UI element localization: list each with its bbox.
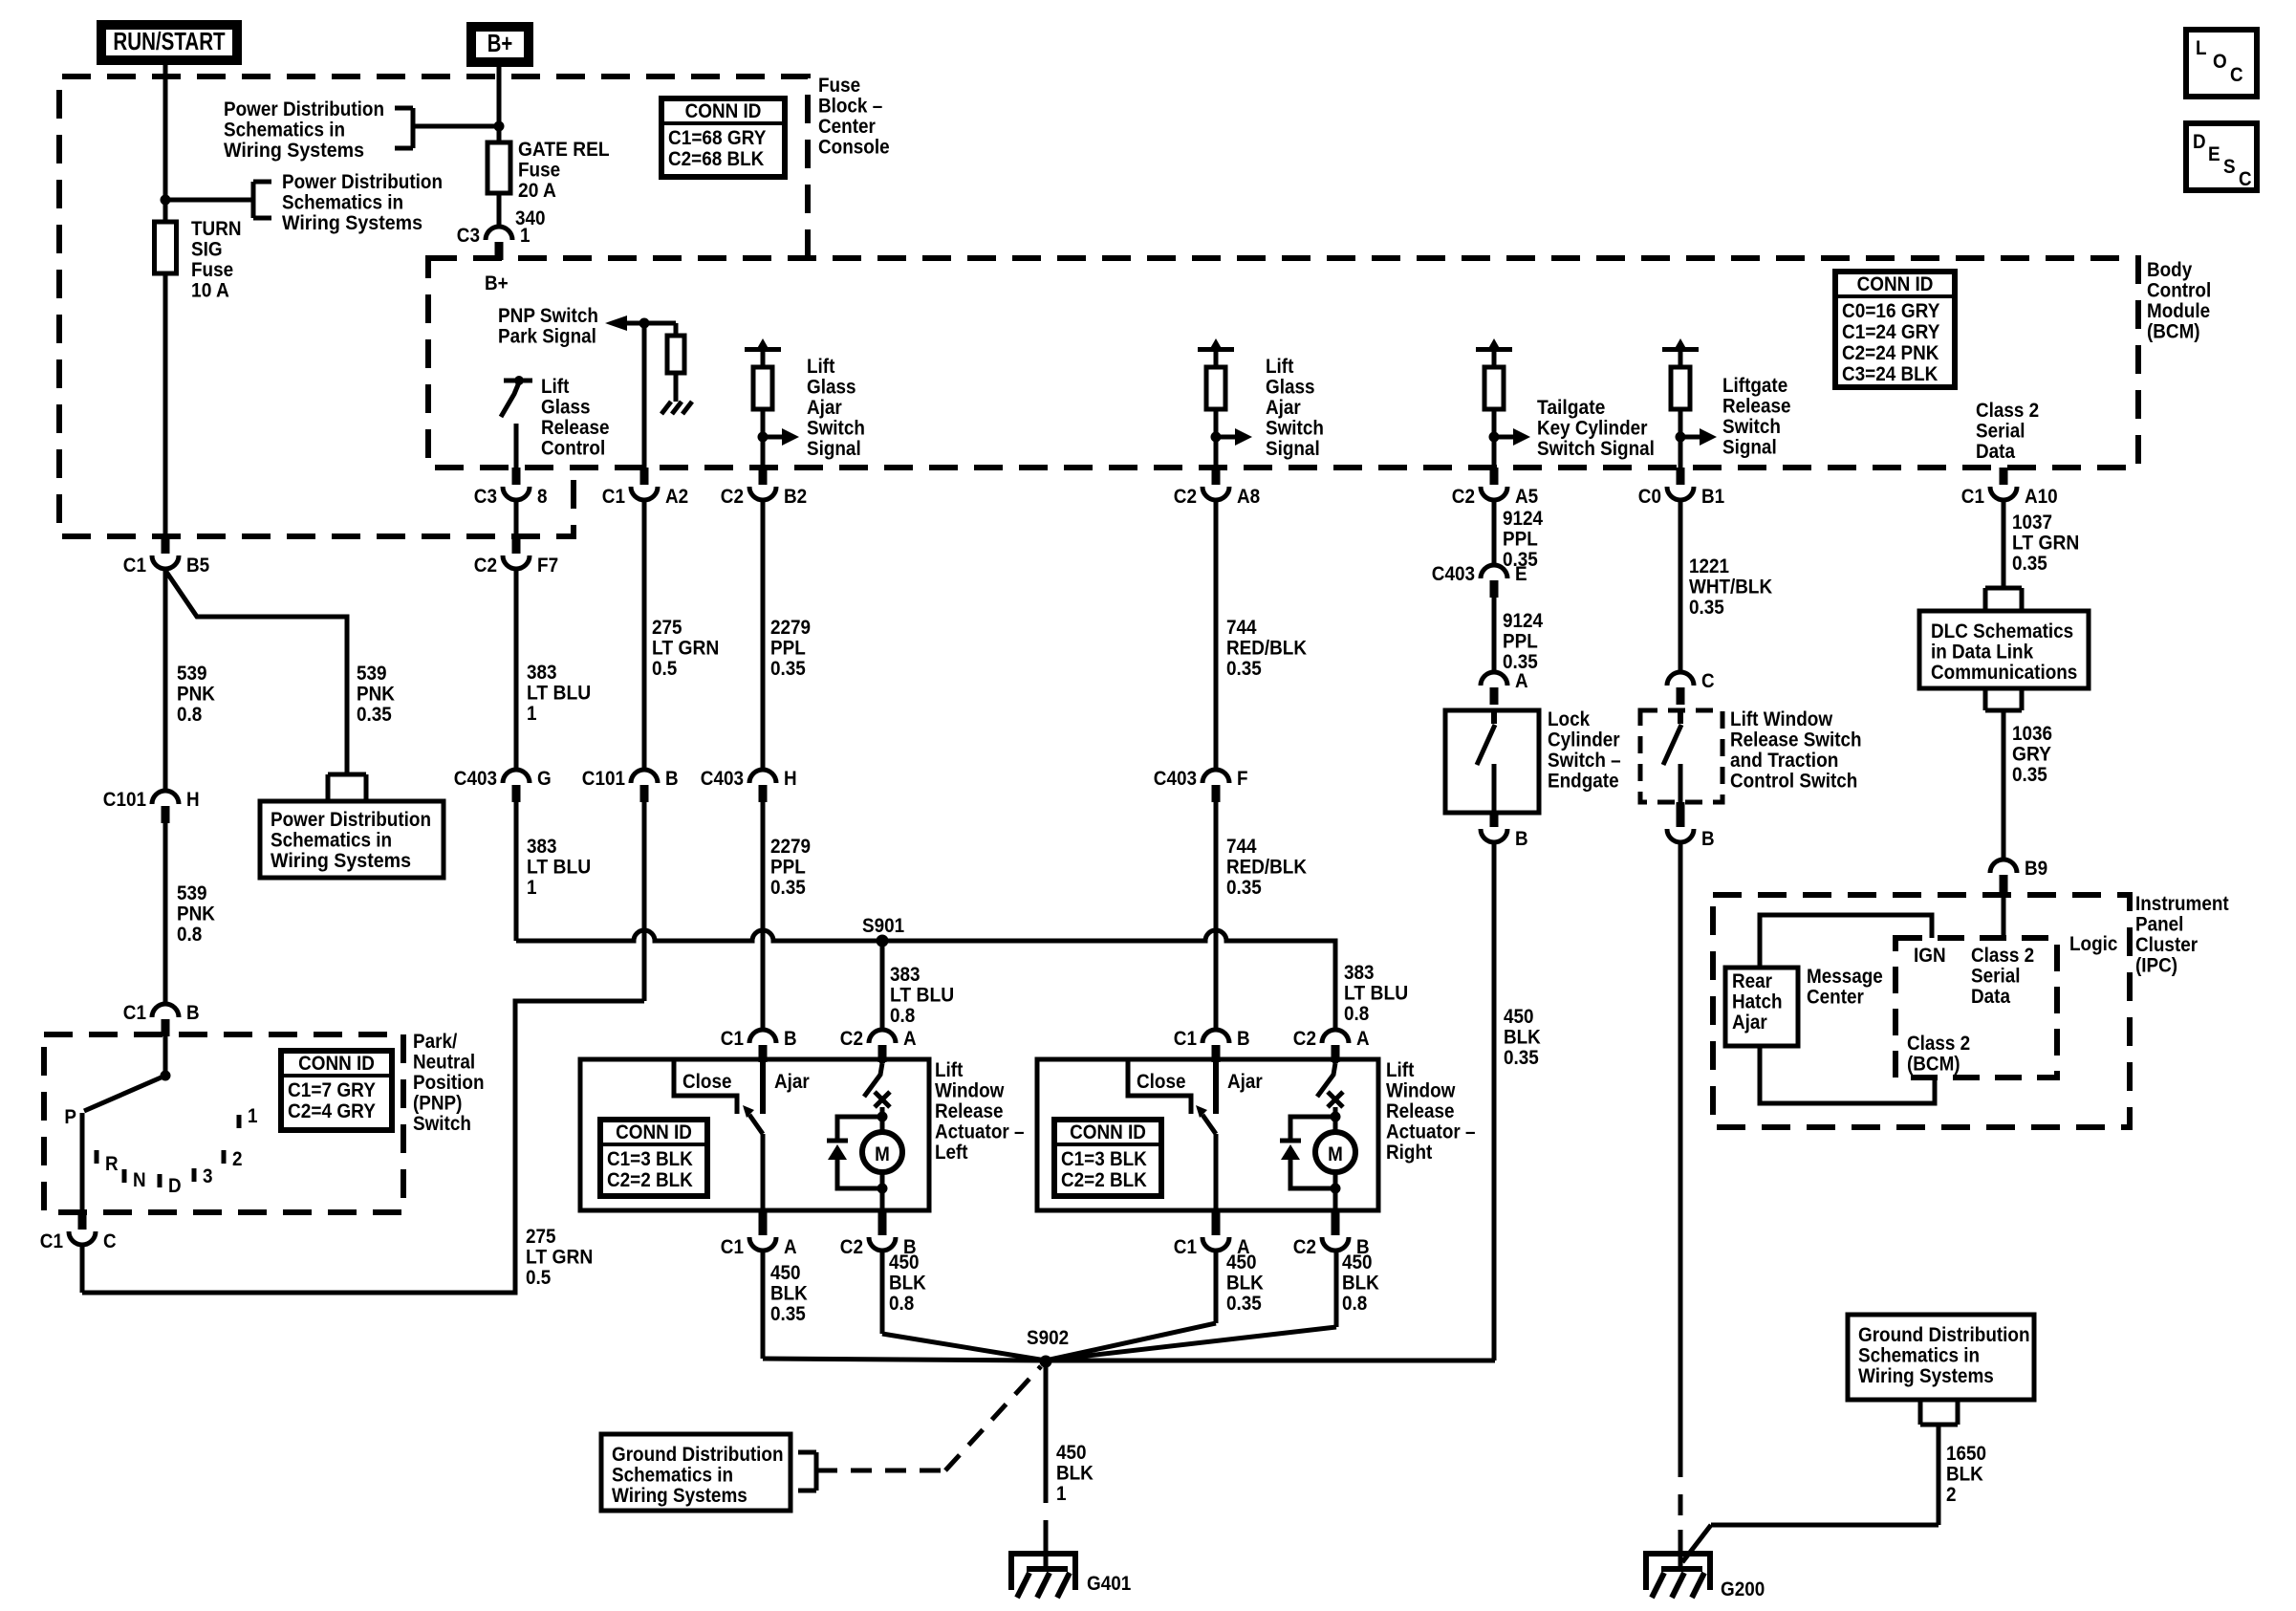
- svg-text:LT BLU: LT BLU: [1344, 983, 1408, 1005]
- svg-text:2: 2: [1946, 1484, 1957, 1506]
- svg-text:Release Switch: Release Switch: [1730, 729, 1862, 751]
- svg-text:IGN: IGN: [1914, 945, 1946, 967]
- svg-text:1650: 1650: [1946, 1443, 1986, 1465]
- svg-text:BLK: BLK: [889, 1273, 926, 1295]
- svg-text:C3: C3: [474, 486, 497, 508]
- svg-text:F: F: [1237, 768, 1248, 790]
- svg-text:Window: Window: [1386, 1080, 1456, 1102]
- svg-text:1036: 1036: [2012, 723, 2052, 745]
- svg-text:G401: G401: [1087, 1573, 1131, 1595]
- svg-text:450: 450: [1342, 1252, 1373, 1274]
- svg-text:C1: C1: [40, 1230, 63, 1252]
- svg-text:C2: C2: [474, 555, 497, 577]
- svg-text:744: 744: [1226, 617, 1257, 639]
- svg-text:Actuator –: Actuator –: [1386, 1121, 1476, 1143]
- svg-text:Wiring Systems: Wiring Systems: [224, 140, 364, 162]
- svg-text:TURN: TURN: [191, 218, 242, 240]
- svg-text:450: 450: [1056, 1442, 1087, 1464]
- svg-text:A: A: [1515, 670, 1528, 692]
- svg-text:DLC Schematics: DLC Schematics: [1931, 620, 2073, 642]
- svg-text:B: B: [784, 1028, 797, 1050]
- svg-text:Cylinder: Cylinder: [1548, 729, 1620, 751]
- svg-text:B: B: [665, 768, 679, 790]
- svg-text:Control: Control: [2147, 280, 2211, 302]
- svg-text:N: N: [133, 1169, 146, 1191]
- svg-text:0.35: 0.35: [770, 877, 806, 899]
- svg-text:Actuator –: Actuator –: [935, 1121, 1025, 1143]
- svg-text:S: S: [2223, 156, 2236, 178]
- svg-text:CONN ID: CONN ID: [1070, 1121, 1146, 1143]
- svg-text:Glass: Glass: [1266, 377, 1315, 399]
- svg-text:Lift: Lift: [935, 1059, 963, 1081]
- svg-text:0.8: 0.8: [1342, 1293, 1368, 1315]
- svg-text:GATE REL: GATE REL: [518, 139, 610, 161]
- svg-text:1221: 1221: [1689, 555, 1729, 577]
- svg-text:Switch: Switch: [1722, 416, 1781, 438]
- svg-text:C2: C2: [721, 486, 744, 508]
- svg-text:RUN/START: RUN/START: [113, 27, 225, 55]
- svg-text:Fuse: Fuse: [191, 259, 233, 281]
- svg-text:383: 383: [527, 836, 557, 858]
- svg-text:BLK: BLK: [1056, 1463, 1094, 1485]
- svg-text:8: 8: [537, 486, 548, 508]
- svg-text:Lift: Lift: [807, 356, 834, 378]
- svg-text:H: H: [784, 768, 797, 790]
- svg-text:0.8: 0.8: [890, 1005, 916, 1027]
- svg-text:Release: Release: [1722, 396, 1791, 418]
- svg-text:Class 2: Class 2: [1907, 1033, 1970, 1055]
- svg-text:LT GRN: LT GRN: [652, 638, 719, 660]
- svg-text:C: C: [2239, 168, 2252, 190]
- svg-text:Schematics in: Schematics in: [282, 192, 403, 214]
- svg-text:C2: C2: [840, 1236, 863, 1258]
- svg-text:Logic: Logic: [2069, 933, 2118, 955]
- svg-text:Wiring Systems: Wiring Systems: [271, 850, 411, 872]
- svg-text:C1: C1: [721, 1028, 744, 1050]
- svg-text:0.35: 0.35: [2012, 764, 2047, 786]
- svg-text:0.35: 0.35: [2012, 553, 2047, 575]
- svg-text:C1=68 GRY: C1=68 GRY: [668, 127, 766, 149]
- svg-text:Lock: Lock: [1548, 708, 1590, 730]
- svg-text:M: M: [1328, 1143, 1343, 1165]
- svg-text:(BCM): (BCM): [1907, 1054, 1960, 1076]
- svg-text:Key Cylinder: Key Cylinder: [1537, 418, 1648, 440]
- svg-text:Switch: Switch: [1266, 418, 1324, 440]
- svg-text:Block –: Block –: [818, 96, 882, 118]
- svg-text:RED/BLK: RED/BLK: [1226, 857, 1307, 879]
- svg-text:C1: C1: [602, 486, 625, 508]
- svg-text:C403: C403: [454, 768, 497, 790]
- svg-text:Close: Close: [682, 1071, 732, 1093]
- svg-text:SIG: SIG: [191, 239, 223, 261]
- svg-text:450: 450: [770, 1262, 801, 1284]
- svg-text:Center: Center: [1807, 987, 1864, 1009]
- svg-text:383: 383: [1344, 962, 1375, 984]
- svg-text:D: D: [2193, 131, 2206, 153]
- svg-text:Close: Close: [1137, 1071, 1186, 1093]
- svg-text:1: 1: [520, 225, 531, 247]
- svg-text:Serial: Serial: [1971, 966, 2021, 988]
- svg-text:Panel: Panel: [2135, 914, 2183, 936]
- svg-text:0.8: 0.8: [177, 704, 203, 726]
- svg-text:C: C: [2230, 64, 2243, 86]
- svg-text:Power Distribution: Power Distribution: [271, 809, 431, 831]
- svg-text:PPL: PPL: [1503, 529, 1538, 551]
- svg-text:450: 450: [1226, 1252, 1257, 1274]
- svg-text:C403: C403: [1432, 563, 1475, 585]
- svg-text:Communications: Communications: [1931, 662, 2077, 684]
- svg-text:Switch –: Switch –: [1548, 750, 1621, 772]
- svg-text:Power Distribution: Power Distribution: [224, 98, 384, 120]
- svg-text:383: 383: [527, 662, 557, 684]
- svg-text:M: M: [875, 1143, 890, 1165]
- svg-text:9124: 9124: [1503, 508, 1543, 530]
- svg-text:Module: Module: [2147, 300, 2210, 322]
- svg-text:B: B: [1701, 828, 1715, 850]
- svg-text:S902: S902: [1027, 1327, 1069, 1349]
- svg-text:G200: G200: [1721, 1578, 1765, 1600]
- svg-text:BLK: BLK: [1226, 1273, 1264, 1295]
- svg-text:C0=16 GRY: C0=16 GRY: [1842, 300, 1939, 322]
- svg-text:A5: A5: [1515, 486, 1538, 508]
- svg-text:C1=7 GRY: C1=7 GRY: [288, 1079, 376, 1101]
- svg-text:Window: Window: [935, 1080, 1005, 1102]
- svg-text:450: 450: [889, 1252, 920, 1274]
- svg-text:CONN ID: CONN ID: [298, 1053, 375, 1075]
- svg-text:B2: B2: [784, 486, 807, 508]
- svg-text:Tailgate: Tailgate: [1537, 397, 1605, 419]
- svg-text:and Traction: and Traction: [1730, 750, 1838, 772]
- svg-text:744: 744: [1226, 836, 1257, 858]
- svg-text:Center: Center: [818, 116, 876, 138]
- svg-text:Schematics in: Schematics in: [224, 120, 345, 142]
- svg-text:0.8: 0.8: [177, 924, 203, 946]
- svg-text:C1: C1: [123, 555, 146, 577]
- svg-text:GRY: GRY: [2012, 744, 2051, 766]
- svg-text:0.35: 0.35: [1689, 597, 1724, 619]
- svg-text:B+: B+: [487, 29, 513, 57]
- svg-text:PNP Switch: PNP Switch: [498, 305, 598, 327]
- svg-text:BLK: BLK: [1342, 1273, 1379, 1295]
- svg-text:Serial: Serial: [1976, 421, 2025, 443]
- svg-text:Wiring Systems: Wiring Systems: [282, 212, 422, 234]
- svg-text:Schematics in: Schematics in: [612, 1465, 733, 1487]
- svg-text:B+: B+: [485, 272, 509, 294]
- svg-text:Left: Left: [935, 1142, 968, 1164]
- svg-text:O: O: [2213, 51, 2227, 73]
- svg-text:539: 539: [177, 663, 207, 685]
- svg-text:9124: 9124: [1503, 610, 1543, 632]
- svg-text:1: 1: [527, 877, 537, 899]
- svg-text:Glass: Glass: [541, 397, 591, 419]
- svg-text:10 A: 10 A: [191, 280, 229, 302]
- svg-text:B9: B9: [2025, 858, 2047, 880]
- svg-text:PNK: PNK: [177, 684, 215, 706]
- svg-text:Switch: Switch: [807, 418, 865, 440]
- svg-text:Position: Position: [413, 1072, 485, 1094]
- svg-text:2: 2: [232, 1148, 243, 1170]
- svg-text:PPL: PPL: [770, 638, 806, 660]
- svg-text:C1=24 GRY: C1=24 GRY: [1842, 321, 1939, 343]
- svg-text:Body: Body: [2147, 259, 2192, 281]
- svg-text:1: 1: [527, 703, 537, 725]
- svg-text:1: 1: [1056, 1483, 1067, 1505]
- svg-text:(IPC): (IPC): [2135, 955, 2177, 977]
- svg-text:Console: Console: [818, 137, 890, 159]
- svg-text:LT GRN: LT GRN: [526, 1247, 593, 1269]
- svg-text:C2: C2: [840, 1028, 863, 1050]
- svg-text:C403: C403: [1154, 768, 1197, 790]
- svg-text:0.35: 0.35: [357, 704, 392, 726]
- svg-text:Rear: Rear: [1732, 970, 1772, 992]
- svg-text:BLK: BLK: [1946, 1464, 1983, 1486]
- svg-text:C1: C1: [1174, 1236, 1197, 1258]
- svg-text:CONN ID: CONN ID: [1857, 273, 1934, 295]
- svg-text:LT GRN: LT GRN: [2012, 533, 2079, 555]
- svg-text:F7: F7: [537, 555, 558, 577]
- svg-text:Control Switch: Control Switch: [1730, 771, 1857, 793]
- svg-text:0.35: 0.35: [770, 1303, 806, 1325]
- svg-text:0.35: 0.35: [770, 658, 806, 680]
- svg-text:3: 3: [203, 1165, 213, 1187]
- svg-text:LT BLU: LT BLU: [890, 985, 954, 1007]
- svg-text:CONN ID: CONN ID: [616, 1121, 692, 1143]
- svg-text:Neutral: Neutral: [413, 1052, 475, 1074]
- svg-text:Wiring Systems: Wiring Systems: [612, 1485, 747, 1507]
- svg-text:Class 2: Class 2: [1976, 400, 2039, 422]
- svg-text:Endgate: Endgate: [1548, 771, 1619, 793]
- svg-text:20 A: 20 A: [518, 180, 556, 202]
- svg-text:0.5: 0.5: [652, 658, 678, 680]
- svg-text:S901: S901: [862, 915, 904, 937]
- svg-text:C1: C1: [1961, 486, 1984, 508]
- svg-text:E: E: [2208, 143, 2220, 165]
- svg-text:Liftgate: Liftgate: [1722, 375, 1787, 397]
- svg-text:A10: A10: [2025, 486, 2058, 508]
- svg-text:1037: 1037: [2012, 512, 2052, 533]
- svg-text:Signal: Signal: [1722, 437, 1777, 459]
- svg-text:BLK: BLK: [770, 1283, 808, 1305]
- svg-text:Schematics in: Schematics in: [271, 830, 392, 852]
- svg-text:2279: 2279: [770, 836, 811, 858]
- svg-text:Ground Distribution: Ground Distribution: [612, 1444, 784, 1466]
- svg-text:B5: B5: [186, 555, 209, 577]
- svg-text:C2=24 PNK: C2=24 PNK: [1842, 342, 1939, 364]
- svg-text:0.8: 0.8: [1344, 1003, 1370, 1025]
- svg-text:P: P: [64, 1106, 76, 1128]
- svg-text:C101: C101: [103, 789, 146, 811]
- svg-text:1: 1: [248, 1105, 258, 1127]
- svg-text:C1: C1: [1174, 1028, 1197, 1050]
- svg-text:Cluster: Cluster: [2135, 934, 2198, 956]
- svg-text:Ajar: Ajar: [774, 1071, 810, 1093]
- svg-text:PNK: PNK: [357, 684, 395, 706]
- svg-text:Class 2: Class 2: [1971, 945, 2034, 967]
- svg-text:B: B: [1515, 828, 1528, 850]
- svg-text:275: 275: [652, 617, 682, 639]
- svg-text:Glass: Glass: [807, 377, 856, 399]
- svg-text:Switch Signal: Switch Signal: [1537, 438, 1655, 460]
- svg-text:Signal: Signal: [1266, 438, 1320, 460]
- svg-text:in Data Link: in Data Link: [1931, 642, 2033, 664]
- svg-text:E: E: [1515, 563, 1527, 585]
- svg-text:C2=4 GRY: C2=4 GRY: [288, 1100, 376, 1122]
- svg-text:C0: C0: [1638, 486, 1661, 508]
- svg-text:C: C: [103, 1230, 117, 1252]
- svg-text:539: 539: [357, 663, 387, 685]
- svg-text:Right: Right: [1386, 1142, 1432, 1164]
- svg-text:A2: A2: [665, 486, 688, 508]
- svg-text:C: C: [1701, 670, 1715, 692]
- svg-text:Control: Control: [541, 438, 605, 460]
- svg-text:Message: Message: [1807, 966, 1883, 988]
- svg-text:Fuse: Fuse: [518, 160, 560, 182]
- svg-text:Ajar: Ajar: [1227, 1071, 1263, 1093]
- svg-text:Fuse: Fuse: [818, 75, 860, 97]
- svg-text:C2=2 BLK: C2=2 BLK: [1061, 1169, 1147, 1191]
- svg-text:0.35: 0.35: [1504, 1047, 1539, 1069]
- svg-text:Power Distribution: Power Distribution: [282, 171, 443, 193]
- svg-text:WHT/BLK: WHT/BLK: [1689, 577, 1772, 599]
- svg-text:BLK: BLK: [1504, 1027, 1541, 1049]
- svg-text:C403: C403: [701, 768, 744, 790]
- svg-text:0.35: 0.35: [1226, 658, 1262, 680]
- svg-text:Ground Distribution: Ground Distribution: [1858, 1324, 2030, 1346]
- svg-text:C3=24 BLK: C3=24 BLK: [1842, 363, 1938, 385]
- svg-text:Data: Data: [1976, 441, 2015, 463]
- svg-text:(BCM): (BCM): [2147, 321, 2200, 343]
- svg-text:Data: Data: [1971, 986, 2010, 1008]
- svg-text:C2: C2: [1293, 1236, 1316, 1258]
- svg-text:LT BLU: LT BLU: [527, 683, 591, 705]
- svg-text:C2=68 BLK: C2=68 BLK: [668, 148, 764, 170]
- svg-text:Lift: Lift: [1266, 356, 1293, 378]
- svg-text:Lift: Lift: [541, 376, 569, 398]
- svg-text:383: 383: [890, 964, 921, 986]
- svg-text:Release: Release: [1386, 1100, 1455, 1122]
- svg-text:0.35: 0.35: [1226, 1293, 1262, 1315]
- svg-text:539: 539: [177, 882, 207, 904]
- svg-text:Release: Release: [541, 417, 610, 439]
- svg-text:Ajar: Ajar: [1732, 1012, 1767, 1034]
- svg-text:C2: C2: [1174, 486, 1197, 508]
- svg-text:Ajar: Ajar: [1266, 397, 1301, 419]
- svg-text:C3: C3: [457, 225, 480, 247]
- svg-text:C1: C1: [721, 1236, 744, 1258]
- svg-text:L: L: [2196, 37, 2207, 59]
- svg-text:B1: B1: [1701, 486, 1724, 508]
- svg-text:C2=2 BLK: C2=2 BLK: [607, 1169, 693, 1191]
- svg-text:A8: A8: [1237, 486, 1260, 508]
- svg-text:G: G: [537, 768, 552, 790]
- svg-text:Hatch: Hatch: [1732, 991, 1783, 1013]
- svg-text:450: 450: [1504, 1006, 1534, 1028]
- svg-text:R: R: [105, 1153, 119, 1175]
- svg-text:B: B: [1237, 1028, 1250, 1050]
- svg-text:LT BLU: LT BLU: [527, 857, 591, 879]
- svg-text:Lift: Lift: [1386, 1059, 1414, 1081]
- svg-text:C101: C101: [582, 768, 625, 790]
- svg-text:CONN ID: CONN ID: [685, 100, 762, 122]
- svg-text:C1=3 BLK: C1=3 BLK: [1061, 1148, 1147, 1170]
- svg-text:Ajar: Ajar: [807, 397, 842, 419]
- svg-text:C1=3 BLK: C1=3 BLK: [607, 1148, 693, 1170]
- svg-text:H: H: [186, 789, 200, 811]
- svg-text:Switch: Switch: [413, 1113, 471, 1135]
- svg-text:Instrument: Instrument: [2135, 893, 2229, 915]
- svg-text:275: 275: [526, 1226, 556, 1248]
- svg-text:D: D: [168, 1175, 182, 1197]
- svg-text:A: A: [1356, 1028, 1370, 1050]
- svg-text:C2: C2: [1293, 1028, 1316, 1050]
- svg-text:PNK: PNK: [177, 903, 215, 925]
- svg-text:C2: C2: [1452, 486, 1475, 508]
- svg-text:A: A: [903, 1028, 917, 1050]
- svg-text:B: B: [186, 1002, 200, 1024]
- svg-text:Wiring Systems: Wiring Systems: [1858, 1365, 1994, 1387]
- svg-text:Signal: Signal: [807, 438, 861, 460]
- svg-text:Schematics in: Schematics in: [1858, 1345, 1980, 1367]
- svg-text:RED/BLK: RED/BLK: [1226, 638, 1307, 660]
- svg-text:Park Signal: Park Signal: [498, 326, 596, 348]
- svg-text:PPL: PPL: [1503, 631, 1538, 653]
- svg-text:A: A: [784, 1236, 797, 1258]
- svg-text:Park/: Park/: [413, 1031, 457, 1053]
- svg-text:(PNP): (PNP): [413, 1093, 462, 1115]
- svg-text:PPL: PPL: [770, 857, 806, 879]
- svg-text:C1: C1: [123, 1002, 146, 1024]
- svg-text:2279: 2279: [770, 617, 811, 639]
- svg-text:0.5: 0.5: [526, 1267, 552, 1289]
- svg-text:0.8: 0.8: [889, 1293, 915, 1315]
- svg-text:Lift Window: Lift Window: [1730, 708, 1833, 730]
- svg-text:Release: Release: [935, 1100, 1004, 1122]
- svg-text:0.35: 0.35: [1226, 877, 1262, 899]
